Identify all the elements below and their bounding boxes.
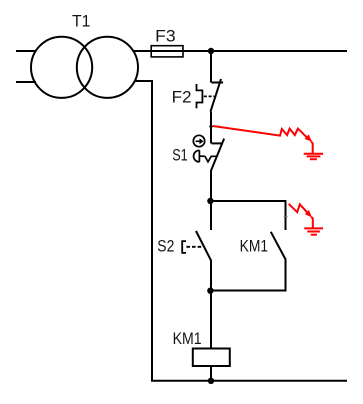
contact F2 normally-closed xyxy=(211,79,224,112)
wire S2 bottom xyxy=(210,260,212,291)
svg-text:S2: S2 xyxy=(157,237,174,255)
S1 linkage stem xyxy=(199,155,204,157)
S1 latching symbol xyxy=(205,156,217,162)
connection tick for fault arrow 1 xyxy=(209,126,213,128)
fault arrow red 1 xyxy=(213,126,313,154)
svg-text:T1: T1 xyxy=(72,13,91,31)
earth fault ground red 2 xyxy=(304,228,323,234)
S1 actuator circle with arrow (turn-to-release) xyxy=(193,135,204,146)
fault arrow red 2 xyxy=(289,204,313,228)
wire junction to coil xyxy=(210,291,212,349)
svg-text:F2: F2 xyxy=(172,89,192,107)
svg-text:S1: S1 xyxy=(172,147,188,165)
wire F2 upper terminal xyxy=(210,51,212,83)
svg-text:KM1: KM1 xyxy=(240,238,269,256)
junction dot bottom xyxy=(208,378,214,384)
fuse F3 xyxy=(151,46,183,57)
wire top rail xyxy=(134,50,347,52)
earth fault ground red 1 xyxy=(304,154,323,160)
wire KM1 contact bottom xyxy=(210,259,285,291)
contact S1 normally-closed xyxy=(211,139,224,172)
overload release symbol F2 xyxy=(197,84,203,108)
wire primary top lead xyxy=(16,50,36,52)
wire S1 to junction xyxy=(210,171,212,201)
wire transformer secondary drop and bottom rail xyxy=(135,81,347,381)
coil KM1 xyxy=(193,349,230,367)
contact KM1 normally-open xyxy=(271,232,286,260)
svg-text:F3: F3 xyxy=(155,27,176,45)
svg-text:KM1: KM1 xyxy=(173,330,202,348)
wire primary bottom lead xyxy=(16,81,36,83)
junction dot top xyxy=(208,48,214,54)
contact S2 normally-open xyxy=(196,231,211,261)
wire F2 to S1 xyxy=(210,112,212,144)
linkage dashed F2 xyxy=(204,95,216,97)
linkage dashed S2 xyxy=(186,246,202,248)
S1 actuator mushroom head xyxy=(194,150,200,162)
wire branch to KM1 contact xyxy=(210,201,285,230)
connection tick on branch wire xyxy=(284,216,288,218)
transformer T1 xyxy=(31,37,138,98)
pushbutton actuator S2 xyxy=(182,241,186,253)
wire coil to bottom rail xyxy=(210,366,212,381)
junction dot lower xyxy=(207,288,213,294)
wire junction to S2 xyxy=(210,201,212,230)
junction dot middle xyxy=(207,198,213,204)
